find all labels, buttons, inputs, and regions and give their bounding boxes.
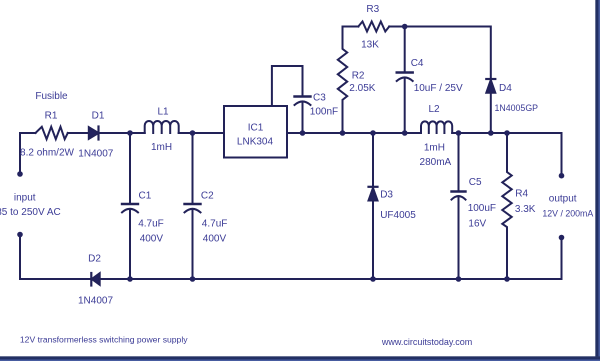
op-amp-style box IC1 [224, 106, 287, 158]
svg-text:C3: C3 [313, 93, 326, 104]
svg-text:L1: L1 [157, 107, 169, 118]
svg-text:L2: L2 [428, 104, 440, 115]
svg-text:D4: D4 [499, 83, 512, 94]
wire L2 to output corner [452, 133, 561, 173]
svg-text:12V transformerless switching: 12V transformerless switching power supp… [20, 335, 188, 345]
resistor R4 with stems [502, 133, 511, 279]
svg-text:D3: D3 [380, 190, 393, 201]
node output lower terminal [559, 235, 565, 241]
wire C3 feedback loop [272, 66, 303, 106]
svg-text:C2: C2 [201, 191, 214, 202]
resistor R2 with stems [338, 27, 347, 134]
svg-text:R2: R2 [352, 71, 365, 82]
wire R1 to D1 [68, 132, 89, 134]
svg-text:16V: 16V [468, 219, 486, 230]
diode D2 [90, 273, 92, 286]
svg-text:12V / 200mA: 12V / 200mA [542, 209, 593, 219]
svg-text:Fusible: Fusible [35, 91, 68, 102]
svg-text:1N4007: 1N4007 [78, 149, 113, 160]
wire main rail left segment [20, 132, 36, 134]
svg-text:R4: R4 [515, 189, 528, 200]
wire top rail R3 to D4 corner [389, 27, 491, 80]
svg-text:2.05K: 2.05K [349, 83, 375, 94]
inductor L1 [145, 121, 179, 133]
node C2 bottom junction [190, 276, 196, 282]
svg-text:400V: 400V [203, 234, 227, 245]
svg-text:D1: D1 [92, 111, 105, 122]
svg-text:3.3K: 3.3K [515, 204, 536, 215]
node C1 bottom junction [127, 276, 133, 282]
wire input upper stub [19, 133, 21, 172]
wire input lower stub [19, 237, 21, 279]
svg-text:85 to 250V AC: 85 to 250V AC [0, 207, 61, 218]
wire L1 to IC1 [179, 132, 224, 134]
node C2 top junction [190, 130, 196, 136]
svg-text:280mA: 280mA [420, 157, 452, 168]
node input upper terminal [17, 171, 23, 177]
svg-text:D2: D2 [88, 254, 101, 265]
inductor L2 [421, 121, 452, 133]
svg-text:1mH: 1mH [424, 143, 445, 154]
svg-text:www.circuitstoday.com: www.circuitstoday.com [381, 337, 472, 347]
wire top rail left of R3 [343, 26, 359, 28]
svg-text:output: output [549, 193, 577, 204]
svg-text:400V: 400V [140, 234, 164, 245]
border bottom bar [0, 356, 600, 361]
svg-text:13K: 13K [361, 39, 379, 50]
node input lower terminal [17, 232, 23, 238]
capacitor C3 [295, 95, 311, 97]
diode D4 [486, 78, 495, 80]
border right bar [595, 0, 600, 361]
node D3 top junction [370, 130, 376, 136]
svg-text:C4: C4 [411, 58, 424, 69]
node R2 bottom junction [340, 130, 346, 136]
diode D3 [372, 133, 374, 187]
node C1 top junction [127, 130, 133, 136]
capacitor C5 [458, 133, 460, 190]
node C4 bottom junction [402, 130, 408, 136]
svg-text:100nF: 100nF [310, 107, 338, 118]
capacitor C2 [192, 133, 194, 203]
svg-text:input: input [14, 193, 36, 204]
svg-text:IC1: IC1 [248, 123, 264, 134]
capacitor C4 [404, 27, 406, 72]
capacitor C1 [129, 133, 131, 203]
node output upper terminal [559, 173, 565, 179]
svg-text:C1: C1 [139, 191, 152, 202]
node C4 top junction [402, 24, 408, 30]
wire bottom rail right of D2 [100, 240, 562, 279]
wire D1 to L1 [99, 132, 145, 134]
svg-text:LNK304: LNK304 [237, 137, 274, 148]
node R4 top junction [504, 130, 510, 136]
svg-text:4.7uF: 4.7uF [202, 219, 228, 230]
diode D1 [89, 127, 99, 139]
svg-text:8.2 ohm/2W: 8.2 ohm/2W [20, 148, 74, 159]
svg-text:10uF / 25V: 10uF / 25V [414, 83, 463, 94]
node C3 bottom junction [300, 130, 306, 136]
node C5 top junction [456, 130, 462, 136]
svg-text:100uF: 100uF [468, 203, 496, 214]
node C5 bottom junction [456, 276, 462, 282]
svg-text:1N4007: 1N4007 [78, 296, 113, 307]
svg-text:1mH: 1mH [151, 142, 172, 153]
svg-text:4.7uF: 4.7uF [138, 219, 164, 230]
wire bottom rail left of D2 [20, 278, 91, 280]
node R4 bottom junction [504, 276, 510, 282]
svg-text:1N4005GP: 1N4005GP [495, 103, 539, 113]
node D3 bottom junction [370, 276, 376, 282]
svg-text:R3: R3 [366, 4, 379, 15]
wire IC1 right to L2 [287, 132, 421, 134]
resistor R1 [36, 127, 68, 139]
svg-text:UF4005: UF4005 [380, 210, 416, 221]
svg-text:C5: C5 [469, 177, 482, 188]
node D4 bottom junction [488, 130, 494, 136]
svg-text:R1: R1 [45, 111, 58, 122]
resistor R3 [358, 22, 389, 32]
